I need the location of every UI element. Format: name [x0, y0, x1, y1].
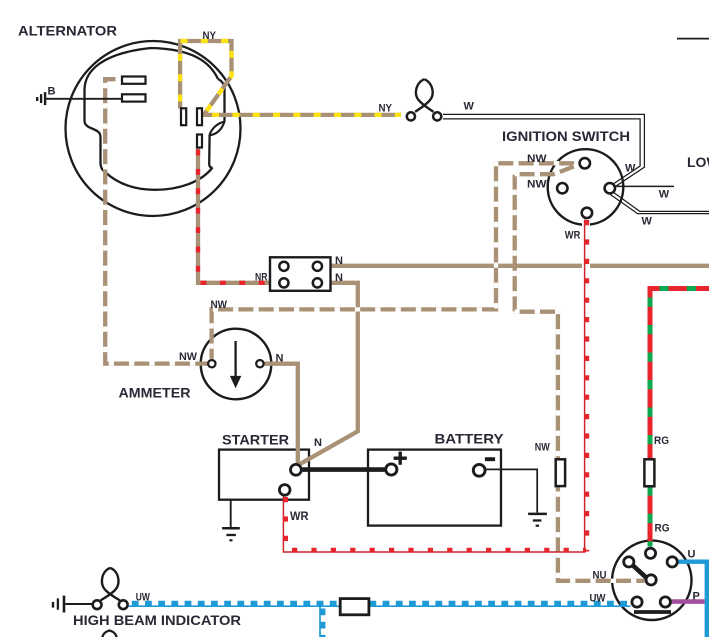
svg-text:BATTERY: BATTERY: [435, 431, 505, 447]
svg-text:W: W: [659, 188, 670, 200]
wire N ammeter to starter: [264, 364, 298, 465]
wire W ignition switch single black: [616, 185, 674, 187]
svg-text:N: N: [276, 353, 284, 365]
wire UW branch down: [319, 607, 321, 637]
svg-text:RG: RG: [654, 435, 669, 447]
svg-text:U: U: [688, 549, 696, 561]
svg-text:NW: NW: [211, 299, 228, 311]
wire U light switch to right edge: [679, 562, 707, 637]
svg-text:LOW: LOW: [687, 154, 709, 170]
battery box: [368, 450, 501, 526]
battery minus symbol: [485, 457, 495, 461]
wire UW indicator to light switch: [129, 605, 631, 607]
svg-text:ALTERNATOR: ALTERNATOR: [18, 23, 117, 39]
ground starter: [222, 527, 240, 530]
svg-text:NW: NW: [527, 179, 547, 191]
svg-text:W: W: [464, 101, 475, 113]
svg-text:NY: NY: [379, 102, 393, 114]
wire P light switch to right edge: [672, 599, 705, 604]
starter terminals: [291, 464, 302, 475]
svg-text:RG: RG: [655, 523, 670, 535]
svg-text:N: N: [314, 437, 322, 449]
ignition switch terminals: [580, 158, 590, 168]
battery terminals: [386, 464, 397, 475]
svg-text:UW: UW: [136, 592, 150, 604]
light switch terminals: [645, 548, 655, 558]
svg-text:NW: NW: [179, 351, 198, 363]
svg-text:UW: UW: [590, 593, 607, 605]
wire WR ignition switch down (white casing): [582, 221, 590, 544]
wire RG right edge to fuse to light switch: [650, 289, 709, 463]
ignition switch body: [548, 149, 624, 225]
svg-text:N: N: [335, 272, 343, 284]
svg-text:NY: NY: [203, 30, 217, 42]
wire battery negative to ground: [487, 469, 538, 512]
svg-text:NR: NR: [255, 272, 268, 284]
wire W ignition switch to right edge lower (double line): [612, 192, 709, 212]
svg-text:WR: WR: [565, 230, 581, 242]
ground high beam indicator: [52, 602, 54, 608]
ammeter terminals: [208, 360, 215, 367]
fuse RG: [644, 459, 654, 486]
wire WR starter vertical: [282, 497, 284, 553]
blade terminals inside alternator: [122, 77, 146, 84]
svg-text:B: B: [48, 86, 56, 98]
high beam indicator bulb: [102, 568, 120, 600]
alternator inner body bottom arc: [105, 168, 213, 190]
svg-text:NW: NW: [527, 153, 547, 165]
svg-text:W: W: [625, 162, 636, 174]
alternator outer case: [66, 41, 241, 216]
svg-text:IGNITION SWITCH: IGNITION SWITCH: [502, 128, 630, 144]
svg-text:W: W: [642, 216, 653, 228]
alternator right brush notch: [218, 79, 225, 122]
light switch body: [612, 541, 691, 620]
fuse NW: [556, 459, 565, 486]
light switch lever: [630, 563, 650, 581]
svg-text:P: P: [693, 591, 700, 603]
wire starter case to ground: [230, 500, 232, 529]
wire NW ammeter to ignition switch: [212, 163, 578, 358]
wire top right black: [677, 38, 709, 40]
alternator inner body top arc: [85, 48, 219, 90]
bulb partial bottom: [103, 631, 117, 637]
wire NW alternator to ammeter: [105, 79, 207, 363]
svg-text:AMMETER: AMMETER: [119, 385, 191, 401]
ground battery: [528, 513, 547, 516]
wire WR horizontal run: [283, 551, 585, 553]
connector block near alternator: [270, 257, 331, 291]
battery plus symbol: [399, 452, 402, 465]
connector on UW wire: [340, 599, 369, 615]
ground alternator B terminal: [36, 97, 38, 101]
alternator left brush notch: [85, 90, 106, 172]
wire WR ignition switch vertical: [584, 220, 586, 552]
svg-text:WR: WR: [290, 509, 309, 523]
ammeter body: [201, 329, 272, 400]
light switch bottom contact bar: [634, 610, 671, 614]
ammeter needle arrow: [234, 341, 236, 377]
svg-text:NW: NW: [535, 442, 551, 454]
wire N connector to starter: [297, 283, 358, 466]
svg-text:HIGH BEAM INDICATOR: HIGH BEAM INDICATOR: [73, 612, 241, 628]
wire B terminal black: [46, 98, 123, 100]
svg-text:STARTER: STARTER: [222, 432, 289, 448]
wire NW ignition switch to fuse to NU light switch: [515, 165, 645, 581]
ignition warning light bulb: [416, 79, 434, 112]
wire NY alternator loop and to warning light: [180, 41, 401, 115]
wire N bus connector to right edge: [323, 264, 709, 268]
wire indicator ground lead: [65, 603, 91, 605]
svg-text:NU: NU: [593, 569, 607, 581]
wire NR alternator to connector: [198, 148, 279, 283]
svg-text:N: N: [335, 255, 343, 267]
wire thick battery cable starter to battery: [303, 467, 385, 472]
starter solenoid box: [219, 450, 309, 500]
wire W warning light to ignition switch (double line): [443, 114, 644, 188]
